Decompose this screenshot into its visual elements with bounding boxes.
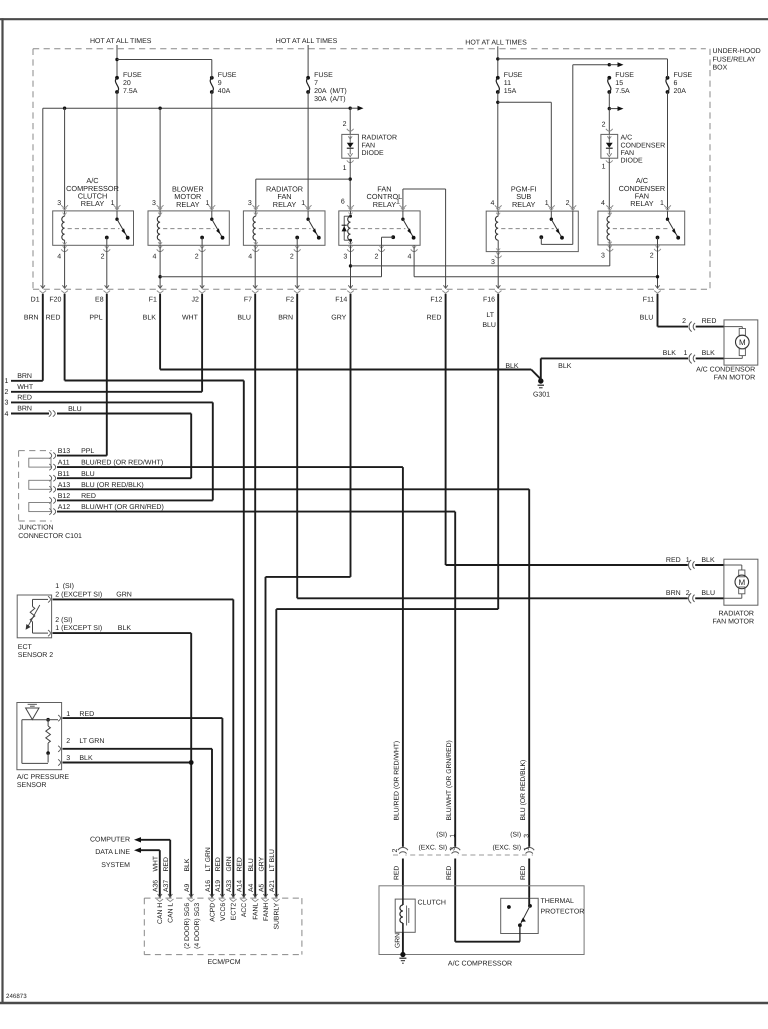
stub 3 wire to junction B12 xyxy=(11,401,213,403)
svg-text:1: 1 xyxy=(524,847,531,851)
connector pin D1 wire color BRN xyxy=(41,285,45,288)
fuse 7 20A/30A xyxy=(306,76,310,80)
svg-text:B13: B13 xyxy=(58,448,71,455)
svg-text:A19: A19 xyxy=(215,880,222,892)
svg-text:2 (SI): 2 (SI) xyxy=(55,616,72,624)
svg-text:LT GRN: LT GRN xyxy=(79,738,104,745)
svg-text:RED: RED xyxy=(79,711,94,718)
clutch xyxy=(395,899,415,932)
svg-text:30A (A/T): 30A (A/T) xyxy=(314,95,346,103)
svg-text:FUSE: FUSE xyxy=(504,72,523,79)
svg-text:RADIATOR: RADIATOR xyxy=(362,135,398,142)
under-hood fuse/relay box (dashed) xyxy=(33,48,706,50)
ECM pin A21 SUBRLY wire LT BLU xyxy=(274,894,278,897)
svg-text:VCC6: VCC6 xyxy=(220,903,227,921)
ground link: blower pin4 to fan control pin2 xyxy=(158,275,161,278)
connector pin F12 wire color RED xyxy=(443,285,447,288)
wire ECT GRN to ECM A33 xyxy=(53,598,234,600)
wire: blower relay pin4 to F1 xyxy=(159,245,161,288)
fuse 6 20A xyxy=(666,76,670,80)
svg-text:BLU: BLU xyxy=(640,315,654,322)
svg-text:B12: B12 xyxy=(58,493,71,500)
svg-text:DIODE: DIODE xyxy=(362,150,385,157)
svg-text:A14: A14 xyxy=(237,880,244,892)
svg-text:A5: A5 xyxy=(258,883,265,892)
svg-text:PPL: PPL xyxy=(81,448,94,455)
svg-text:A21: A21 xyxy=(269,880,276,892)
stub 2 wire to J2 xyxy=(11,391,202,393)
svg-text:RED: RED xyxy=(702,318,717,325)
clutch GRN ground to case xyxy=(402,932,404,954)
svg-text:RED: RED xyxy=(17,394,32,401)
computer data line system arrows xyxy=(169,840,171,898)
wire: relay1 pin4 to F20 xyxy=(64,245,66,288)
svg-text:DATA LINE: DATA LINE xyxy=(95,849,130,856)
svg-text:RED: RED xyxy=(81,493,96,500)
svg-text:FUSE: FUSE xyxy=(218,72,237,79)
svg-text:HOT AT ALL TIMES: HOT AT ALL TIMES xyxy=(276,38,338,45)
svg-text:BOX: BOX xyxy=(713,65,728,72)
svg-text:GRY: GRY xyxy=(258,856,265,871)
svg-text:4: 4 xyxy=(57,253,61,260)
A/C compressor assembly xyxy=(379,886,584,955)
wire: bus to relay1 coil pin3 xyxy=(64,108,66,211)
svg-text:COMPUTER: COMPUTER xyxy=(90,837,130,844)
svg-text:1 (EXCEPT SI): 1 (EXCEPT SI) xyxy=(55,624,102,632)
relay A/C CONDENSER FAN RELAY xyxy=(598,211,685,245)
svg-text:A11: A11 xyxy=(58,460,70,467)
thermal protector wiring xyxy=(528,898,530,906)
svg-text:RELAY: RELAY xyxy=(81,199,105,208)
svg-text:3: 3 xyxy=(66,755,70,762)
wire: fuse7 down to bus / radiator fan relay pin1 xyxy=(307,92,309,211)
radiator fan motor xyxy=(724,559,758,605)
svg-text:F14: F14 xyxy=(335,296,347,303)
svg-text:2: 2 xyxy=(566,200,570,207)
svg-text:SUBRLY: SUBRLY xyxy=(274,902,281,929)
connector pin F20 wire color RED xyxy=(62,285,66,288)
svg-text:GRN: GRN xyxy=(394,933,401,948)
wire: pgm-fi pin2 riser to fuse15 top, arrow continuation xyxy=(572,65,574,211)
svg-text:2: 2 xyxy=(101,253,105,260)
svg-text:ACC: ACC xyxy=(241,903,248,917)
wire: blower relay pin2 to J2 xyxy=(201,245,203,288)
svg-text:2: 2 xyxy=(650,253,654,260)
svg-text:3: 3 xyxy=(450,847,457,851)
svg-text:2: 2 xyxy=(195,253,199,260)
svg-text:G301: G301 xyxy=(533,392,550,399)
svg-text:246873: 246873 xyxy=(6,993,27,1000)
fuse 9 40A xyxy=(210,76,214,80)
ECM pin A5 FANH wire GRY xyxy=(263,894,267,897)
wire F7 BLU straight to ECM A4 xyxy=(254,294,256,898)
a/c condenser fan diode xyxy=(608,109,610,135)
A/C condensor fan motor xyxy=(724,320,758,365)
svg-text:1: 1 xyxy=(111,200,115,207)
stub 1 wire to D1 xyxy=(11,380,43,382)
radiator fan motor connectors and labels xyxy=(688,563,695,567)
wire: pgm-fi sub relay pin3 to F16 xyxy=(497,252,499,289)
svg-text:FAN: FAN xyxy=(621,150,635,157)
svg-text:RELAY: RELAY xyxy=(630,199,654,208)
fuse 11 15A xyxy=(496,76,500,80)
wire F16 LT BLU jog to ECM A21 xyxy=(497,294,499,609)
wire: fan control relay pin3 to F14 xyxy=(350,245,352,288)
svg-text:FANH: FANH xyxy=(263,903,270,921)
svg-text:BLU: BLU xyxy=(68,406,82,413)
relay BLOWER MOTOR RELAY xyxy=(148,211,229,245)
svg-text:(4 DOOR) SG3: (4 DOOR) SG3 xyxy=(194,903,201,949)
ECM pin A9 SG wire BLK xyxy=(189,894,193,897)
svg-text:M: M xyxy=(738,578,745,587)
pressure sensor pins xyxy=(58,715,60,721)
svg-text:BLU (OR RED/BLK): BLU (OR RED/BLK) xyxy=(81,481,144,489)
svg-text:BLK: BLK xyxy=(505,363,519,370)
wire F12 RED to radiator fan motor pin 1 xyxy=(445,294,447,565)
relay RADIATOR FAN RELAY xyxy=(243,211,325,245)
connector pin J2 wire color WHT xyxy=(200,285,204,288)
svg-text:3: 3 xyxy=(491,259,495,266)
svg-text:7.5A: 7.5A xyxy=(123,88,138,95)
wire: fuse6 down to condenser fan relay pin1 xyxy=(667,92,669,211)
junction connector internal pin links xyxy=(29,458,51,467)
svg-text:RED: RED xyxy=(215,857,222,871)
connector pin F7 wire color BLU xyxy=(253,285,257,288)
wire F14 GRY jog to ECM A5 xyxy=(350,294,352,577)
compressor in-line connector C/dashes xyxy=(393,854,533,856)
svg-text:HOT AT ALL TIMES: HOT AT ALL TIMES xyxy=(90,38,152,45)
wire: fuse15 bottom junction, arrow continuation xyxy=(608,92,610,109)
svg-text:4: 4 xyxy=(407,253,411,260)
svg-text:9: 9 xyxy=(218,80,222,87)
main fused bus at y=108 xyxy=(43,107,350,109)
link: fan control pin4 to condenser fan relay pin2 xyxy=(413,245,415,276)
svg-text:(EXC. SI): (EXC. SI) xyxy=(418,845,447,852)
svg-text:GRN: GRN xyxy=(226,856,233,871)
wire pressure RED to ECM A19 xyxy=(63,717,223,719)
svg-text:ACPD: ACPD xyxy=(209,903,216,922)
svg-text:F11: F11 xyxy=(643,296,655,303)
wire: fan control relay pin1 riser to F12 drop xyxy=(402,189,404,211)
svg-text:BLK: BLK xyxy=(143,315,157,322)
junction connector pin A11 wire BLU/RED (OR RED/WHT) xyxy=(49,464,51,470)
svg-text:BLK: BLK xyxy=(663,350,677,357)
svg-text:ECT: ECT xyxy=(18,644,33,651)
wire: radiator fan relay pin4 to F7 xyxy=(254,245,256,288)
svg-text:BLK: BLK xyxy=(558,363,572,370)
svg-text:FAN MOTOR: FAN MOTOR xyxy=(714,375,755,382)
svg-text:BRN: BRN xyxy=(24,315,39,322)
svg-text:6: 6 xyxy=(674,80,678,87)
svg-text:2: 2 xyxy=(5,389,9,396)
svg-text:3: 3 xyxy=(5,400,9,407)
svg-text:3: 3 xyxy=(601,253,605,260)
radiator fan diode xyxy=(349,108,351,134)
svg-text:RED: RED xyxy=(237,857,244,871)
svg-text:GRY: GRY xyxy=(331,315,346,322)
svg-text:CONNECTOR C101: CONNECTOR C101 xyxy=(18,533,82,540)
svg-text:1: 1 xyxy=(343,165,347,172)
svg-text:1: 1 xyxy=(602,163,606,170)
svg-text:WHT: WHT xyxy=(182,315,199,322)
svg-text:F2: F2 xyxy=(286,296,294,303)
ECM pin A16 ACPD wire LT GRN xyxy=(210,894,214,897)
svg-text:BLU: BLU xyxy=(81,471,95,478)
svg-text:RED: RED xyxy=(427,315,442,322)
ECM pin A19 VCC6 wire RED xyxy=(220,894,224,897)
svg-text:2: 2 xyxy=(686,590,690,597)
wire F1 BLK down to G301 xyxy=(159,294,161,370)
connector pin E8 wire color PPL xyxy=(105,285,109,288)
connector pin F16 wire color LT BLU xyxy=(496,285,500,288)
svg-text:A4: A4 xyxy=(248,883,255,892)
svg-text:PPL: PPL xyxy=(89,315,102,322)
svg-text:FUSE: FUSE xyxy=(314,72,333,79)
wire: relay1 pin2 to E8 xyxy=(106,245,108,288)
svg-text:BLU/WHT (OR GRN/RED): BLU/WHT (OR GRN/RED) xyxy=(446,740,453,820)
wire pressure BLK joins ECT BLK column xyxy=(63,762,192,764)
svg-text:A/C PRESSURE: A/C PRESSURE xyxy=(17,773,69,781)
stub 4 wire BRN/BLU to junction B11 xyxy=(11,413,49,415)
svg-text:FUSE/RELAY: FUSE/RELAY xyxy=(713,55,756,63)
svg-text:3: 3 xyxy=(152,200,156,207)
svg-text:2: 2 xyxy=(343,121,347,128)
svg-text:4: 4 xyxy=(5,411,9,418)
svg-text:40A: 40A xyxy=(218,88,231,95)
wire: condenser fan relay pin2 to F11 xyxy=(657,245,659,289)
svg-text:(2 DOOR) SG6: (2 DOOR) SG6 xyxy=(184,903,191,949)
svg-text:BLK: BLK xyxy=(184,858,191,871)
svg-text:3: 3 xyxy=(57,200,61,207)
wire: fuse20 down to relay1 pin1 xyxy=(116,92,118,211)
svg-text:BRN: BRN xyxy=(278,315,293,322)
svg-text:FUSE: FUSE xyxy=(674,72,693,79)
svg-text:WHT: WHT xyxy=(153,856,160,871)
ECM/PCM box xyxy=(144,897,302,899)
svg-text:BLU: BLU xyxy=(248,858,255,871)
svg-text:2 (EXCEPT SI): 2 (EXCEPT SI) xyxy=(55,591,102,599)
svg-text:THERMAL: THERMAL xyxy=(541,898,575,905)
wire F11 BLU to condenser fan motor pin 2 xyxy=(657,294,659,327)
svg-text:F20: F20 xyxy=(49,296,61,303)
svg-text:3: 3 xyxy=(248,200,252,207)
junction connector pin A13 wire BLU (OR RED/BLK) xyxy=(49,486,51,492)
svg-text:RELAY: RELAY xyxy=(176,200,200,209)
svg-text:BLK: BLK xyxy=(118,625,132,632)
svg-text:PROTECTOR: PROTECTOR xyxy=(541,909,585,916)
wire J2 WHT down to stub 2 xyxy=(201,294,203,392)
svg-text:RELAY: RELAY xyxy=(512,200,536,209)
svg-text:FUSE: FUSE xyxy=(615,72,634,79)
svg-text:F1: F1 xyxy=(149,296,157,303)
svg-text:A16: A16 xyxy=(205,880,212,892)
svg-text:2: 2 xyxy=(682,318,686,325)
wire: radiator fan relay pin2 to F2 xyxy=(296,245,298,288)
svg-text:RED: RED xyxy=(46,315,61,322)
svg-text:11: 11 xyxy=(504,80,511,87)
svg-text:1: 1 xyxy=(301,200,305,207)
G301 ground xyxy=(531,370,541,380)
svg-text:15A: 15A xyxy=(504,88,517,95)
svg-text:DIODE: DIODE xyxy=(621,158,644,165)
svg-text:CONDENSER: CONDENSER xyxy=(621,142,666,149)
svg-text:BLK: BLK xyxy=(701,557,715,564)
wire E8 PPL down to junction B13 xyxy=(106,294,108,456)
svg-text:1: 1 xyxy=(66,711,70,718)
junction connector C101 xyxy=(19,450,52,452)
svg-text:BLU: BLU xyxy=(482,322,496,329)
heavy wire drops below fuse box xyxy=(42,294,44,381)
relay A/C COMPRESSOR CLUTCH RELAY xyxy=(53,211,134,245)
svg-text:ECM/PCM: ECM/PCM xyxy=(207,958,240,966)
svg-text:HOT AT ALL TIMES: HOT AT ALL TIMES xyxy=(465,40,527,47)
junction connector pin A12 wire BLU/WHT (OR GRN/RED) xyxy=(49,509,51,515)
connector pin F1 wire color BLK xyxy=(158,285,162,288)
svg-text:RED: RED xyxy=(446,866,453,880)
connector pin F2 wire color BRN xyxy=(295,285,299,288)
svg-text:CLUTCH: CLUTCH xyxy=(418,900,446,907)
svg-text:SYSTEM: SYSTEM xyxy=(101,862,130,869)
wire: radiator fan relay pin3 riser to diode junction xyxy=(255,179,257,211)
A/C pressure sensor xyxy=(17,703,62,770)
svg-text:4: 4 xyxy=(153,253,157,260)
svg-text:2: 2 xyxy=(392,849,399,853)
svg-text:2: 2 xyxy=(290,253,294,260)
svg-text:RED: RED xyxy=(394,866,401,880)
svg-text:BRN: BRN xyxy=(666,590,681,597)
svg-text:J2: J2 xyxy=(191,296,199,303)
junction connector pin B12 wire RED xyxy=(49,497,51,503)
svg-text:FAN MOTOR: FAN MOTOR xyxy=(713,619,754,626)
svg-text:FUSE: FUSE xyxy=(123,72,142,79)
svg-text:1 (SI): 1 (SI) xyxy=(55,582,74,590)
connector pin F14 wire color GRY xyxy=(348,285,352,288)
svg-text:BLU (OR RED/BLK): BLU (OR RED/BLK) xyxy=(520,760,527,821)
svg-text:B11: B11 xyxy=(58,471,70,478)
ECM pin A37 CAN L wire RED xyxy=(168,894,172,897)
svg-text:4: 4 xyxy=(601,200,605,207)
thermal protector xyxy=(501,898,539,933)
svg-text:(SI): (SI) xyxy=(436,832,447,839)
junction connector pin B13 wire PPL xyxy=(49,453,51,459)
svg-text:CAN L: CAN L xyxy=(168,903,175,923)
svg-text:RED: RED xyxy=(520,866,527,880)
svg-text:A9: A9 xyxy=(184,883,191,892)
svg-text:RED: RED xyxy=(163,857,170,871)
svg-text:A/C CONDENSOR: A/C CONDENSOR xyxy=(696,365,755,373)
svg-text:BLK: BLK xyxy=(79,755,93,762)
svg-text:3: 3 xyxy=(343,253,347,260)
svg-text:15: 15 xyxy=(615,80,623,87)
svg-text:GRN: GRN xyxy=(116,592,132,599)
svg-text:3: 3 xyxy=(524,834,531,838)
svg-text:A/C COMPRESSOR: A/C COMPRESSOR xyxy=(448,959,512,967)
svg-text:JUNCTION: JUNCTION xyxy=(18,525,53,532)
svg-text:UNDER-HOOD: UNDER-HOOD xyxy=(713,48,761,55)
relay PGM-FI SUB RELAY xyxy=(486,211,578,252)
svg-text:BLK: BLK xyxy=(702,350,716,357)
svg-text:1: 1 xyxy=(545,200,549,207)
svg-text:WHT: WHT xyxy=(17,384,34,391)
svg-text:20A (M/T): 20A (M/T) xyxy=(314,87,347,95)
svg-text:RELAY: RELAY xyxy=(273,200,297,209)
svg-text:1: 1 xyxy=(450,834,457,838)
svg-text:BLU: BLU xyxy=(701,590,715,597)
svg-text:7: 7 xyxy=(314,80,318,87)
svg-text:LT GRN: LT GRN xyxy=(205,847,212,871)
svg-text:BRN: BRN xyxy=(17,406,32,413)
svg-text:1: 1 xyxy=(686,557,690,564)
svg-text:ECT2: ECT2 xyxy=(231,903,238,921)
svg-text:(SI): (SI) xyxy=(510,832,521,839)
svg-text:4: 4 xyxy=(248,253,252,260)
svg-text:M: M xyxy=(739,338,746,347)
svg-text:1: 1 xyxy=(660,200,664,207)
svg-text:F16: F16 xyxy=(483,296,495,303)
svg-text:A/C: A/C xyxy=(621,134,633,142)
svg-text:FANL: FANL xyxy=(253,903,260,920)
ECM pin A4 FANL wire BLU xyxy=(253,894,257,897)
svg-text:E8: E8 xyxy=(95,296,104,303)
link: fan control pin3 junction to condenser fan relay pin3 xyxy=(349,264,352,267)
svg-text:F7: F7 xyxy=(244,296,252,303)
wire: fuse9 down to blower relay pin1 xyxy=(211,92,213,211)
svg-text:1: 1 xyxy=(205,200,209,207)
svg-text:BLU/WHT (OR GRN/RED): BLU/WHT (OR GRN/RED) xyxy=(81,503,164,511)
svg-text:BLU/RED (OR RED/WHT): BLU/RED (OR RED/WHT) xyxy=(81,459,163,467)
svg-text:A37: A37 xyxy=(163,880,170,892)
ECM pin A14 ACC wire RED xyxy=(242,894,246,897)
svg-text:A13: A13 xyxy=(58,482,71,489)
wire F20 RED jog to ECM A14 xyxy=(64,294,66,381)
svg-text:F12: F12 xyxy=(430,296,442,303)
svg-text:6: 6 xyxy=(341,199,345,206)
svg-text:1: 1 xyxy=(684,350,688,357)
wire pressure LT GRN to ECM A16 xyxy=(63,748,213,750)
svg-text:RELAY: RELAY xyxy=(373,200,397,209)
svg-text:2: 2 xyxy=(375,253,379,260)
svg-text:RED: RED xyxy=(666,557,681,564)
svg-text:A36: A36 xyxy=(153,880,160,892)
wire: bus to blower relay coil pin3 xyxy=(159,108,161,211)
svg-text:BRN: BRN xyxy=(17,373,32,380)
wire: fuse20 junction to fuse9 feed xyxy=(115,58,118,61)
svg-text:D1: D1 xyxy=(31,296,40,303)
fuse 15 7.5A xyxy=(607,76,611,80)
ECM pin A33 ECT2 wire GRN xyxy=(231,894,235,897)
svg-text:FAN: FAN xyxy=(362,142,376,149)
junction row wires xyxy=(57,455,107,457)
svg-text:BLU/RED (OR RED/WHT): BLU/RED (OR RED/WHT) xyxy=(394,741,401,821)
svg-text:2: 2 xyxy=(66,738,70,745)
svg-text:LT BLU: LT BLU xyxy=(269,849,276,872)
svg-text:7.5A: 7.5A xyxy=(615,88,630,95)
svg-text:BLU: BLU xyxy=(237,315,251,322)
ECT sensor 2 xyxy=(17,595,51,638)
fuse 20 7.5A xyxy=(115,76,119,80)
svg-text:20: 20 xyxy=(123,80,131,87)
svg-text:2: 2 xyxy=(602,121,606,128)
wire F2 BRN to radiator fan motor pin 2 xyxy=(296,294,298,599)
svg-text:20A: 20A xyxy=(674,88,687,95)
relay FAN CONTROL RELAY xyxy=(339,211,420,245)
wire: fuse11 to pgm-fi pin1 feed xyxy=(497,92,499,211)
wire G301 up to condenser fan motor pin 1 (BLK) xyxy=(540,358,542,381)
svg-text:A33: A33 xyxy=(226,880,233,892)
ECM pin A36 CAN H wire WHT xyxy=(158,894,162,897)
svg-text:A12: A12 xyxy=(58,504,71,511)
svg-text:RADIATOR: RADIATOR xyxy=(718,610,754,617)
